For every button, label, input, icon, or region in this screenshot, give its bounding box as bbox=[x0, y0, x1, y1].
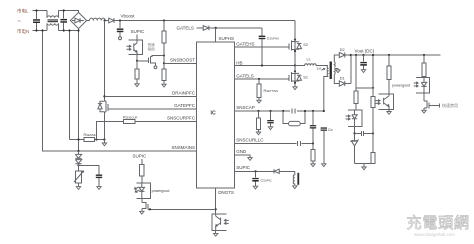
ground arrow GND bbox=[248, 158, 252, 161]
ground arrow Q4 bbox=[140, 211, 144, 214]
svg-text:RSENSE: RSENSE bbox=[84, 133, 96, 137]
ground arrow center tap bbox=[336, 70, 340, 73]
junction dot divider top at Vboost bbox=[163, 19, 165, 21]
junction dot SNSCURLLC node bbox=[312, 142, 314, 144]
svg-text:powergood: powergood bbox=[152, 189, 170, 193]
wire SUPIC bbox=[235, 170, 295, 172]
junction dot sense at AC-N bbox=[41, 29, 43, 31]
wire right fb vertical from Vout bbox=[372, 55, 374, 97]
resistor R-disable bbox=[423, 55, 425, 63]
svg-text:SUPIC: SUPIC bbox=[236, 165, 251, 170]
svg-text:Vboost: Vboost bbox=[121, 14, 136, 19]
resistor R-SETTING bbox=[258, 79, 260, 84]
svg-text:CR: CR bbox=[328, 128, 333, 132]
junction dot right fb top bbox=[372, 54, 374, 56]
svg-text:LS: LS bbox=[307, 58, 311, 62]
wire varistor node branch bbox=[79, 164, 100, 174]
junction dot feedback bridge right bbox=[372, 87, 374, 89]
junction dot SNSCAP R tap bbox=[257, 110, 259, 112]
wire GATELS to diode bbox=[197, 27, 204, 29]
wire ground return from AC-N corner bbox=[69, 31, 71, 140]
junction dot cap to right rail bbox=[372, 132, 374, 134]
resistor R-fb-upper bbox=[371, 97, 375, 108]
diode D-mains-1 bbox=[75, 151, 81, 158]
opto-coupler U8 light arrows bbox=[135, 187, 140, 193]
ground arrow R-SETTING bbox=[257, 100, 261, 103]
ground arrow varistor bbox=[76, 187, 80, 190]
wire GATEHS to S2 gate bbox=[235, 46, 289, 48]
resistor R-parallel loop bbox=[283, 111, 305, 124]
svg-text:SNSBOOST: SNSBOOST bbox=[170, 57, 195, 62]
resistor R-pg-led bbox=[140, 165, 144, 177]
resistor R-SNSCUR bbox=[124, 119, 136, 123]
junction dot boost drain node bbox=[104, 19, 106, 21]
svg-text:Vout (DC): Vout (DC) bbox=[355, 49, 375, 54]
opto-coupler U7 light arrows bbox=[224, 219, 228, 224]
svg-text:GATEPFC: GATEPFC bbox=[174, 103, 196, 108]
resistor R-opto bbox=[136, 61, 138, 69]
opto-coupler U4 LED box (open left, feedback) bbox=[348, 110, 362, 126]
svg-text:LM: LM bbox=[317, 67, 322, 71]
junction dot Q1 source node bbox=[103, 138, 105, 140]
svg-text:CSUPIC: CSUPIC bbox=[261, 178, 272, 182]
wire diode to SUPHS node bbox=[208, 27, 262, 29]
opto-coupler U2 photo-transistor bbox=[134, 40, 137, 55]
svg-text:市电N: 市电N bbox=[17, 28, 29, 35]
opto-coupler U5 box (open left, powergood receiver) bbox=[378, 94, 393, 110]
wire AC-N rail after choke to bridge vertical bbox=[59, 30, 79, 32]
svg-text:SNSMAINS: SNSMAINS bbox=[171, 145, 195, 150]
junction dot varistor node bbox=[77, 164, 79, 166]
diode D-mains-2 bbox=[75, 160, 81, 164]
opto-coupler U6 LED bbox=[421, 77, 426, 93]
junction dot bridge at AC-N rail bbox=[77, 29, 79, 31]
opto-coupler U5 photo-transistor bbox=[384, 94, 389, 110]
wire AC-N bottom rail bbox=[33, 30, 48, 32]
svg-text:S2: S2 bbox=[303, 43, 308, 47]
ground arrow opto resistor bbox=[135, 84, 139, 87]
wire opto U2 emitter down bbox=[136, 55, 138, 61]
diode D-GATELS bbox=[203, 26, 209, 31]
svg-text:SNSCAP: SNSCAP bbox=[236, 105, 255, 110]
wire bridge minus down bbox=[78, 29, 80, 151]
resistor R-fb-lower bbox=[371, 153, 375, 164]
ground arrow divider bbox=[162, 84, 166, 87]
wire opto node to Q2 gate bbox=[137, 60, 148, 62]
resistor R-powergood bbox=[388, 55, 390, 66]
wire DRAINPFC to IC bbox=[104, 95, 196, 97]
wire HB to half-bridge node bbox=[235, 65, 295, 67]
junction dot SNSMAINS at bridge return bbox=[77, 150, 79, 152]
transistor Q4 powergood MOSFET bbox=[142, 198, 148, 211]
junction dot Vout at D2 bbox=[350, 54, 352, 56]
inductor Ls bbox=[295, 64, 328, 66]
wire SNSBOOST to IC bbox=[164, 62, 196, 64]
resistor R-fb-left bbox=[355, 88, 357, 91]
wire U5 emitter down bbox=[388, 110, 390, 112]
wire Q4 gate to DNGTS bbox=[148, 208, 150, 210]
resistor R-div-lower bbox=[163, 63, 165, 69]
transistor S2 high-side MOSFET bbox=[294, 21, 296, 40]
opto-coupler U7 photo-transistor bbox=[216, 214, 221, 231]
junction dot bridge return at R-sense row bbox=[77, 138, 79, 140]
ground arrow Q1 source bbox=[102, 143, 106, 146]
wire boost node bbox=[105, 20, 109, 22]
opto-coupler U8 box (open left, powergood LED) bbox=[136, 183, 150, 198]
diode D1 bbox=[339, 81, 351, 86]
junction dot R-SETTING tap bbox=[258, 78, 260, 80]
transistor Q1 PFC MOSFET drain wire bbox=[103, 21, 105, 102]
svg-text:SNSCURPFC: SNSCURPFC bbox=[167, 116, 196, 121]
wire R-sense row bbox=[70, 139, 85, 141]
wire R-SNSCUR to IC bbox=[135, 121, 196, 123]
bridge rectifier BR1 diamond bbox=[70, 12, 86, 28]
opto-coupler U6 box (open left, fast disable) bbox=[416, 77, 430, 93]
svg-text:充電頭網: 充電頭網 bbox=[407, 215, 470, 232]
wire GND bbox=[235, 155, 250, 158]
capacitor C-SUPIC bbox=[255, 171, 257, 177]
common-mode choke L1 top winding bbox=[47, 11, 59, 18]
svg-text:SNSCURLLC: SNSCURLLC bbox=[236, 138, 264, 143]
svg-text:快速禁用: 快速禁用 bbox=[442, 102, 458, 108]
diode D2 bbox=[339, 52, 351, 57]
junction dot Q2 drain on divider bbox=[163, 54, 165, 56]
wire sense line from AC-N bbox=[43, 31, 197, 152]
transistor S2 body diode bbox=[295, 42, 302, 50]
svg-text:CSUPHS: CSUPHS bbox=[267, 36, 279, 40]
svg-text:DRAINPFC: DRAINPFC bbox=[172, 90, 196, 95]
svg-text:RSNSCUR: RSNSCUR bbox=[123, 115, 137, 119]
zener diode ZD1 bbox=[350, 133, 358, 163]
junction dot disable resistor at Vout bbox=[423, 54, 425, 56]
transistor Q1 body diode bbox=[98, 101, 105, 112]
wire SUPIC to opto U2 bbox=[136, 35, 138, 40]
svg-text:GATELS: GATELS bbox=[236, 74, 253, 79]
transformer T1 aux core bar bbox=[297, 173, 299, 185]
svg-text:IC: IC bbox=[211, 111, 216, 117]
junction dot half-bridge node bbox=[294, 64, 296, 66]
svg-text:SUPIC: SUPIC bbox=[133, 153, 148, 158]
capacitor Cr bbox=[321, 127, 327, 128]
junction dot feedback divider left bbox=[355, 54, 357, 56]
junction dot opto node bbox=[136, 60, 138, 62]
junction dot CX2 bottom bbox=[63, 29, 65, 31]
capacitor CX2 bbox=[63, 11, 65, 19]
junction dot RC left bbox=[282, 110, 284, 112]
svg-text:~: ~ bbox=[18, 19, 22, 25]
ground arrow U7 bbox=[214, 233, 218, 236]
junction dot sense tap bbox=[95, 138, 97, 140]
svg-text:SUPIC: SUPIC bbox=[131, 29, 146, 34]
capacitor C-out bbox=[363, 55, 365, 62]
svg-text:powergood: powergood bbox=[392, 84, 410, 88]
junction dot SNSBOOST node bbox=[163, 62, 165, 64]
wire SNSCAP bbox=[235, 110, 324, 112]
wire U4 cathode down bbox=[354, 127, 356, 134]
capacitor C-fb series bbox=[355, 132, 374, 134]
common-mode choke L1 bottom winding bbox=[47, 23, 59, 30]
svg-text:GATELS: GATELS bbox=[177, 26, 194, 31]
resistor R-snscap bbox=[258, 111, 260, 118]
wire Q3 gate bbox=[429, 104, 439, 108]
junction dot SUPHS node bbox=[215, 27, 217, 29]
ground arrow C-out bbox=[361, 70, 365, 73]
wire feedback bottom row bbox=[355, 163, 374, 165]
wire T1 center tap bbox=[334, 68, 338, 70]
junction dot SNSCAP at Cr bbox=[323, 110, 325, 112]
transformer T1 aux winding bbox=[293, 171, 295, 185]
terminal circle Q2 source bbox=[154, 66, 157, 69]
diode D-SUPIC (points left) bbox=[274, 169, 279, 173]
wire Q1 source to ground bbox=[103, 140, 105, 144]
capacitor C-SUPHS bbox=[261, 28, 263, 36]
wire Cr down bbox=[323, 131, 325, 164]
junction dot CX2 top bbox=[63, 9, 65, 11]
svg-text:GND: GND bbox=[236, 149, 247, 154]
wire AC-L rail after choke to bridge bbox=[59, 11, 79, 13]
junction dot return at AC-N bbox=[68, 29, 70, 31]
transistor Q1 PFC MOSFET body bbox=[104, 101, 108, 140]
opto-coupler U4 light arrows bbox=[346, 115, 350, 120]
junction dot SNSCAP divider bbox=[312, 110, 314, 112]
varistor RV1 bbox=[75, 171, 81, 183]
wire SNSCURLLC bbox=[235, 143, 313, 145]
junction dot Q4 gate bbox=[149, 208, 151, 210]
transformer T1 core bars bbox=[330, 62, 332, 80]
capacitor C-snscap bbox=[270, 111, 272, 120]
ground arrow C-mains bbox=[97, 187, 101, 190]
svg-text:GATEHS: GATEHS bbox=[236, 42, 254, 47]
junction dot DNGTS node bbox=[215, 208, 217, 210]
capacitor C-series on SNSCAP bbox=[292, 109, 295, 114]
junction dot Vout cap bbox=[362, 54, 364, 56]
svg-text:RSETTING: RSETTING bbox=[264, 89, 279, 93]
ground arrow feedback bbox=[363, 164, 365, 168]
wire GATELS to S1 gate bbox=[235, 78, 289, 80]
junction dot C-SUPHS at HB bbox=[261, 64, 263, 66]
capacitor C-mains bbox=[96, 175, 102, 176]
ground arrow C-snscap bbox=[268, 127, 272, 130]
transformer T1 primary winding bbox=[324, 66, 328, 112]
opto-coupler U2 box (open left) bbox=[129, 40, 143, 55]
svg-text:快速: 快速 bbox=[148, 42, 156, 47]
opto-coupler U8 LED bbox=[139, 183, 144, 198]
svg-text:市电L: 市电L bbox=[17, 7, 29, 14]
common-mode choke L1 core bars bbox=[48, 19, 59, 20]
junction dot S1 source bbox=[294, 82, 296, 84]
svg-text:HB: HB bbox=[236, 60, 242, 65]
ground arrow S1 source bbox=[293, 87, 297, 90]
capacitor C-bulk bbox=[119, 21, 121, 29]
bridge rectifier BR1 inner diode bbox=[72, 18, 84, 23]
opto-coupler U6 light arrows bbox=[414, 82, 418, 87]
capacitor C-div to LLC bbox=[312, 111, 314, 125]
wire GATEPFC from Q1 gate to IC bbox=[108, 108, 196, 110]
wire U7 emitter down bbox=[215, 231, 217, 234]
wire Vout rail bbox=[351, 54, 441, 56]
ground arrow C-SUPIC bbox=[253, 186, 257, 189]
wire R-sense to Q1 source bbox=[95, 139, 105, 141]
wire SUPHS pin bbox=[215, 28, 217, 42]
capacitor CX1 bbox=[36, 11, 38, 20]
wire AC-L top rail bbox=[33, 10, 48, 12]
opto-coupler U4 LED bbox=[352, 110, 357, 126]
junction dot S2 source bbox=[294, 50, 296, 52]
svg-text:S1: S1 bbox=[303, 76, 308, 80]
junction dot DRAINPFC bbox=[103, 95, 105, 97]
ground arrow aux winding bbox=[293, 186, 297, 189]
op-amp IC main controller box bbox=[196, 42, 234, 188]
resistor R-div-upper bbox=[163, 21, 165, 32]
diode D-boost bbox=[109, 18, 114, 23]
svg-text:www.chargerlab.com: www.chargerlab.com bbox=[414, 232, 455, 237]
junction dot zener node bbox=[353, 132, 355, 134]
svg-text:D1: D1 bbox=[340, 77, 345, 81]
junction dot powergood resistor at Vout bbox=[388, 54, 390, 56]
junction dot CX1 bottom bbox=[35, 29, 37, 31]
opto-coupler U5 light arrows bbox=[375, 99, 380, 104]
wire DNGTS to powergood MOSFET bbox=[148, 208, 215, 210]
junction dot CX1 top bbox=[35, 9, 37, 11]
ground arrow Q3 bbox=[422, 110, 426, 113]
svg-text:DNGTS: DNGTS bbox=[218, 190, 234, 195]
capacitor C-series LLC bbox=[297, 141, 300, 146]
junction dot SNSCAP C tap bbox=[269, 110, 271, 112]
transistor Q2 (boost-sense pulldown) bbox=[147, 58, 149, 64]
ground arrow R-snscurllc bbox=[311, 164, 315, 167]
ground arrow U5 bbox=[387, 112, 391, 115]
opto-coupler U7 box (open right, DNGTS receiver) bbox=[212, 214, 227, 231]
transistor S1 body diode bbox=[295, 73, 302, 81]
transistor S1 low-side MOSFET bbox=[294, 66, 296, 72]
junction dot RC right bbox=[304, 110, 306, 112]
junction dot Vboost cap bbox=[119, 19, 121, 21]
ground arrow R-snscap bbox=[256, 132, 260, 135]
wire D1 up to Vout bbox=[350, 55, 352, 84]
ground arrow Cr bbox=[322, 164, 326, 167]
terminal circle C-bulk bbox=[119, 37, 122, 40]
wire feedback left vertical bbox=[356, 55, 373, 88]
wire Vboost rail bbox=[114, 20, 296, 22]
inductor L-boost bbox=[86, 20, 90, 22]
transistor Q3 fast disable MOSFET bbox=[424, 93, 429, 110]
wire SUPIC to R-pg bbox=[141, 159, 143, 165]
pin DNGTS wire bbox=[215, 188, 217, 214]
svg-text:SUPHS: SUPHS bbox=[219, 36, 235, 41]
svg-text:禁用: 禁用 bbox=[148, 47, 156, 52]
junction dot C-SUPIC bbox=[254, 170, 256, 172]
resistor R-snscurllc bbox=[312, 144, 314, 150]
svg-text:D2: D2 bbox=[340, 48, 345, 52]
resistor R-SENSE bbox=[84, 137, 95, 141]
transformer T1 secondary winding bbox=[334, 55, 339, 84]
opto-coupler U2 light arrows bbox=[127, 45, 131, 50]
wire SNSCURPFC tap up and to IC bbox=[97, 122, 124, 140]
